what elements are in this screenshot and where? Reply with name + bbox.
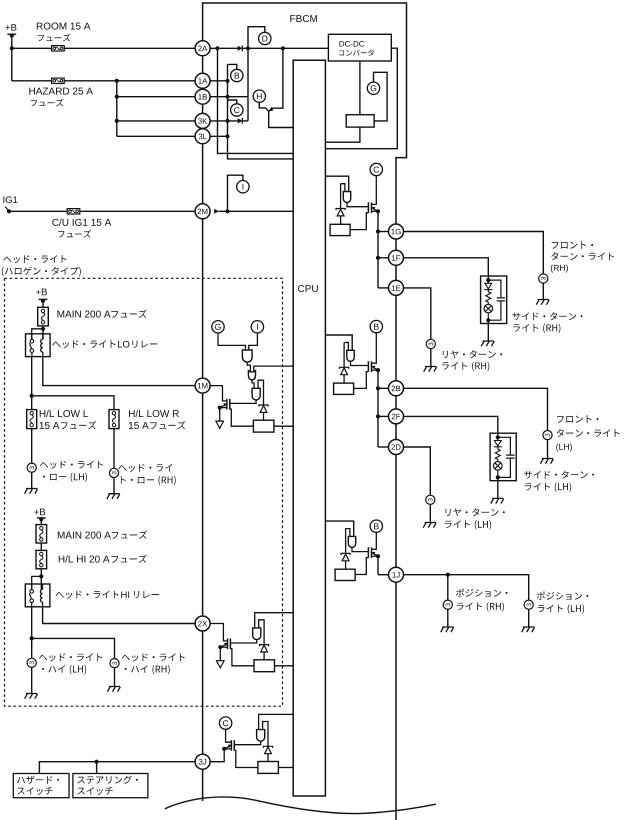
MOSFET source stub <box>372 210 379 212</box>
gate drive wire <box>352 548 368 552</box>
wire high branch to RH <box>32 638 115 658</box>
ground ref 3 (front RH) <box>539 274 548 283</box>
fuse C/U IG1 15A <box>67 209 80 214</box>
resistor <box>334 383 354 394</box>
cell right pin loop <box>263 722 268 747</box>
source junction <box>376 209 380 213</box>
MOSFET channel bar <box>371 361 373 372</box>
wire 3L row <box>210 135 228 137</box>
resistor <box>335 569 355 580</box>
unit entry/exit wires <box>497 433 499 438</box>
+B label (HI) <box>34 509 45 516</box>
junction 3L <box>225 134 229 138</box>
node B circle <box>231 69 243 81</box>
gate AND cell <box>347 350 354 361</box>
gate drive wire <box>235 741 261 744</box>
ground (rear turn LH) <box>423 523 436 528</box>
resistor <box>254 660 275 672</box>
gate drive wire <box>230 400 256 403</box>
wire 1B row <box>210 96 248 98</box>
zener diode <box>341 553 350 555</box>
wire C to drain (3J) <box>226 729 232 742</box>
output bus <box>377 370 379 447</box>
node G circle (LO) <box>212 321 224 333</box>
IG1 label <box>3 196 17 203</box>
wire contact down (LO) <box>31 356 33 409</box>
junction steering branch <box>95 760 99 764</box>
zener feedback drop <box>343 343 345 368</box>
resistor <box>258 762 279 774</box>
cell input from CPU <box>255 613 294 628</box>
ground (position RH) <box>441 627 454 632</box>
FBCM label <box>290 15 317 22</box>
wire rear RH to ground <box>430 349 432 367</box>
fuse ROOM 15A <box>52 46 65 51</box>
junction relay feed (HI) <box>39 574 43 578</box>
source junction <box>222 747 226 751</box>
supply node circle <box>370 320 382 332</box>
cell right pin loop <box>259 620 264 645</box>
ground ref 3 (rear RH) <box>426 339 435 348</box>
OR out to AND2 <box>252 380 254 388</box>
wire zener to resistor <box>345 561 347 569</box>
wire fuse to relay node <box>42 326 44 339</box>
wire to last pin <box>378 287 389 289</box>
ROOM label <box>37 23 91 30</box>
H/L LOW L label <box>40 410 88 417</box>
wire to pin <box>378 387 389 389</box>
DC-DC label line1 <box>339 41 364 47</box>
side turn RH label <box>512 312 582 320</box>
wire resistor to gate <box>230 409 254 426</box>
junction 1B <box>225 95 229 99</box>
MOSFET gate bar <box>229 639 231 650</box>
wire 2A branch to CPU <box>218 48 294 153</box>
gate AND cell <box>343 192 350 203</box>
pin 2F <box>389 409 404 424</box>
+B terminal (HI) <box>37 517 46 519</box>
ground (rear turn RH) <box>424 367 437 372</box>
diode D1 (2A row) <box>238 46 243 51</box>
fuse H/L LOW R <box>109 410 119 429</box>
wire 1J output <box>403 575 529 600</box>
pin 2A <box>195 41 210 56</box>
front turn LH label <box>557 415 598 422</box>
junction 3K branch <box>115 119 119 123</box>
unit lamp <box>494 462 503 471</box>
steering switch label <box>77 775 138 783</box>
pin 2B <box>389 381 404 396</box>
junction 3K <box>225 119 229 123</box>
wire front LH to ground <box>547 440 549 459</box>
ground ref 3 (front LH) <box>543 431 552 440</box>
gate AND cell <box>257 730 265 742</box>
source junction <box>218 645 222 649</box>
ground ref 3 (head low LH) <box>27 463 36 472</box>
zener diode <box>336 209 345 211</box>
unit entry/exit wires <box>487 276 489 281</box>
MOSFET gate bar <box>367 361 369 372</box>
wire +B to MAIN fuse <box>42 300 44 307</box>
MOSFET source arrow <box>221 644 227 647</box>
zener diode <box>263 746 272 748</box>
FBCM box outline <box>203 3 407 820</box>
wire front RH to ground <box>542 283 544 299</box>
C/U IG1 fuse label <box>58 230 91 238</box>
fuse H/L LOW L <box>27 410 37 429</box>
ground (head low LH) <box>25 489 38 494</box>
MOSFET channel bar <box>227 639 229 650</box>
transistor H supply wire <box>272 48 283 108</box>
junction H supply <box>281 46 285 50</box>
wire zener to resistor <box>267 754 269 762</box>
MOSFET drain stub <box>372 532 377 549</box>
MOSFET source stub <box>372 555 379 557</box>
wire to 1B <box>117 96 196 98</box>
gate AND cell <box>348 536 355 547</box>
wire coil to 1M <box>43 356 196 385</box>
MOSFET channel bar <box>226 399 228 410</box>
wire +B to MAIN fuse (HI) <box>40 519 42 525</box>
ground ref 3 (head high LH) <box>27 658 36 667</box>
output junction <box>376 386 380 390</box>
wire to last pin <box>378 574 389 576</box>
node I circle (LO) <box>251 321 263 333</box>
wire 3J to switches <box>39 762 195 774</box>
junction 1A <box>225 79 229 83</box>
wire zener to resistor <box>340 216 342 224</box>
wire between fuses <box>40 543 42 550</box>
junction high branch <box>30 636 34 640</box>
wire 3K diode out <box>242 120 248 122</box>
ground (side turn LH) <box>491 498 504 503</box>
output junction <box>376 414 380 418</box>
wire to 3K <box>117 120 196 122</box>
DC-DC label line2 <box>339 50 374 56</box>
H/L HI label <box>59 555 110 562</box>
ground arrow (HI) <box>219 647 221 661</box>
wire rear LH to ground <box>429 504 431 522</box>
headlight dashed box <box>5 278 283 706</box>
wire resistor to CPU <box>278 767 293 769</box>
unit capacitor plates <box>506 455 514 458</box>
relay headlight-LO <box>26 334 51 357</box>
MOSFET channel bar <box>371 547 373 558</box>
head high LH label <box>39 653 102 661</box>
side turn LH label <box>524 471 594 479</box>
cell right pin loop <box>258 380 263 405</box>
C/U IG1 label <box>52 219 111 226</box>
pin 1B <box>195 89 210 104</box>
supply node circle <box>370 520 382 532</box>
output bus <box>377 211 379 288</box>
junction I hook <box>225 209 229 213</box>
wire resistor to gate <box>350 213 368 230</box>
MAIN 200A label (LO) <box>58 311 111 318</box>
node D circle <box>259 32 271 44</box>
node C circle (3J) <box>219 717 231 729</box>
unit resistor <box>486 290 491 305</box>
ground (side turn RH) <box>481 341 494 346</box>
CPU label <box>298 285 318 292</box>
zener diode <box>340 367 349 369</box>
MOSFET source arrow <box>373 553 378 556</box>
pin 1F <box>389 250 404 265</box>
wire DC-DC out <box>325 48 397 149</box>
wire to pin <box>378 257 389 259</box>
unit top junction <box>496 435 500 439</box>
ground ref 3 (position LH) <box>524 600 533 609</box>
fuse MAIN 200A (HI) <box>36 525 47 543</box>
ground (head high RH) <box>107 687 120 692</box>
headlight section label <box>3 255 66 263</box>
wire coil to 2X <box>43 607 196 624</box>
zener feedback drop <box>345 529 347 554</box>
wire I to AND <box>249 333 258 350</box>
ground (head high LH) <box>25 694 38 699</box>
relay headlight-HI <box>25 584 50 607</box>
wire fuse to relay node (HI) <box>40 569 42 589</box>
MOSFET channel bar <box>371 203 373 214</box>
+B terminal (top) <box>7 33 16 35</box>
wire HAZARD row <box>12 80 196 82</box>
wire low RH to ground <box>113 478 115 494</box>
junction relay feed (LO) <box>41 327 45 331</box>
zener feedback drop <box>340 184 342 209</box>
+B label (LO) <box>36 289 47 296</box>
output junction <box>376 229 380 233</box>
wire LOW L to gref <box>31 429 33 464</box>
unit lamp <box>484 304 493 313</box>
rear turn LH label <box>445 508 504 516</box>
pin 3J <box>195 754 210 769</box>
pin 2X <box>195 616 210 631</box>
fuse H/L HI 20A <box>36 550 47 568</box>
front turn RH label <box>552 241 593 248</box>
hazard switch box <box>13 774 69 798</box>
source junction <box>376 554 380 558</box>
cell left pin <box>344 343 348 351</box>
wire to contact (LO) <box>32 329 43 340</box>
unit lamp-to-bottom wire <box>487 313 489 320</box>
wire to contact (HI) <box>32 576 42 589</box>
unit capacitor plates <box>497 298 505 301</box>
junction +B/ROOM <box>10 46 14 50</box>
junction low branch <box>30 394 34 398</box>
output bus <box>377 556 379 575</box>
cell left pin <box>341 184 345 192</box>
ROOM fuse label <box>38 34 71 42</box>
ground (front turn LH) <box>540 459 553 464</box>
cell input from CPU <box>259 714 294 729</box>
fuse HAZARD 25A <box>52 78 65 83</box>
head low RH label <box>118 464 172 472</box>
ground arrow (LO) <box>219 408 221 422</box>
MOSFET gate bar <box>233 740 235 751</box>
MAIN 200A label (HI) <box>58 532 111 539</box>
wire 2X pin to drain <box>210 624 227 641</box>
arrow 2M <box>214 209 219 214</box>
+B terminal (LO) <box>39 298 48 300</box>
H/L LOW R label <box>129 410 179 417</box>
hazard switch label <box>17 776 59 784</box>
node H circle <box>253 90 265 102</box>
wire position RH to ground <box>447 609 449 627</box>
resistor R1 (DC-DC) <box>346 115 374 127</box>
wire 2A to diode <box>210 47 238 49</box>
wire R1 to CPU <box>325 127 360 142</box>
MOSFET source stub <box>220 407 227 409</box>
wire 2M row internal <box>219 210 294 212</box>
wire 2D output <box>403 447 430 495</box>
wire zener to resistor <box>343 375 345 383</box>
wire low branch to R fuse <box>32 396 114 410</box>
node G circle <box>367 82 379 94</box>
CPU box <box>293 60 325 796</box>
gate drive wire <box>351 361 369 365</box>
unit bottom junction <box>496 475 500 479</box>
junction 2A branch <box>215 46 219 50</box>
wire +B down <box>11 35 13 81</box>
position RH label <box>456 589 508 597</box>
wire resistor to gate <box>355 558 368 575</box>
unit top junction <box>486 278 490 282</box>
wire 1E output <box>403 288 431 340</box>
wire 1G output <box>403 232 543 274</box>
wire unit LH to ground <box>497 481 499 499</box>
unit resistor <box>495 447 500 462</box>
wire diode-net vertical <box>247 48 249 121</box>
gate drive wire <box>347 203 368 207</box>
unit bottom junction <box>486 318 490 322</box>
node C hook <box>228 100 237 104</box>
wire 1M pin to drain <box>210 386 227 401</box>
AND out to OR <box>247 362 250 371</box>
source junction <box>376 368 380 372</box>
HAZARD label <box>29 88 93 95</box>
wire resistor to CPU <box>274 425 293 427</box>
wire low LH to ground <box>31 472 33 488</box>
headlight LO relay label <box>52 340 115 348</box>
driver gate wire from CPU <box>325 335 352 350</box>
IG1 terminal <box>7 209 11 213</box>
AND gate (G,I) <box>242 350 252 362</box>
wire 2F output <box>403 416 498 433</box>
wire to last pin <box>378 446 389 448</box>
wire zener to resistor <box>263 412 265 420</box>
MOSFET drain stub <box>372 176 377 205</box>
rear turn RH label <box>443 350 502 358</box>
MOSFET source stub <box>220 646 227 648</box>
wire G to AND <box>218 333 245 350</box>
wire LOW R to gref <box>113 429 115 469</box>
junction position RH <box>446 573 450 577</box>
position LH label <box>537 592 589 600</box>
transistor Q1 (H) <box>259 102 268 111</box>
unit zener <box>494 441 501 447</box>
MOSFET gate bar <box>229 399 231 410</box>
gate AND cell <box>253 628 261 640</box>
wire 2B output <box>403 388 547 430</box>
MOSFET drain stub <box>372 333 377 363</box>
unit zener <box>485 283 492 289</box>
junction hazard branch <box>115 79 119 83</box>
pin 1E <box>389 280 404 295</box>
junction after diode <box>246 46 250 50</box>
gate AND cell <box>252 388 260 400</box>
MOSFET source arrow <box>373 367 378 370</box>
pin 2D <box>389 440 404 455</box>
wire 1A row <box>210 80 228 82</box>
resistor <box>330 224 350 235</box>
node I hook <box>228 175 243 211</box>
pin 2M <box>195 204 210 219</box>
wire high RH to ground <box>114 668 116 687</box>
OR right pin from CPU <box>254 366 293 372</box>
cell left pin <box>346 529 350 537</box>
head high RH label <box>122 653 185 661</box>
wire contact down (HI) <box>31 607 33 659</box>
wire to pin <box>378 231 389 233</box>
ground (position LH) <box>522 627 535 632</box>
HAZARD fuse label <box>31 99 64 107</box>
junction 1B branch <box>115 95 119 99</box>
diode D2 (3K row) <box>238 118 243 123</box>
wire position RH drop <box>447 575 449 600</box>
gate drive wire <box>231 640 257 643</box>
MOSFET source stub <box>224 748 231 750</box>
ground ref 3 (head high RH) <box>110 659 119 668</box>
wire DC-DC bottom <box>359 61 361 115</box>
ground (head low RH) <box>107 494 120 499</box>
wire 1F output <box>403 258 488 276</box>
DC-DC converter box <box>328 34 391 61</box>
wire zener to resistor <box>263 652 265 660</box>
MOSFET source stub <box>372 369 379 371</box>
zener diode <box>260 645 269 647</box>
wire resistor to CPU <box>275 665 294 667</box>
pin 1G <box>389 224 404 239</box>
pin 3L <box>195 129 210 144</box>
OR gate <box>248 371 255 380</box>
head low LH label <box>40 461 103 469</box>
wire hazard branch vertical <box>116 81 118 137</box>
wire H output to CPU <box>269 111 294 127</box>
node B hook <box>228 64 237 69</box>
wire diode out to DC-DC <box>242 47 328 49</box>
driver gate wire from CPU <box>325 176 348 191</box>
ground ref 3 (rear LH) <box>426 495 435 504</box>
MOSFET gate bar <box>367 547 369 558</box>
steering switch box <box>73 774 148 798</box>
wire IG1 row <box>9 210 195 212</box>
wire unit RH to ground <box>487 324 489 342</box>
ground ref 3 (position RH) <box>443 600 452 609</box>
MOSFET source arrow <box>221 404 227 407</box>
node G hook <box>374 72 388 121</box>
node D hook <box>248 27 265 49</box>
output junction <box>376 256 380 260</box>
node C circle <box>231 104 243 116</box>
+B label (top) <box>5 24 16 31</box>
wire resistor to gate <box>234 751 258 768</box>
ground (front turn RH) <box>536 300 549 305</box>
headlight HI relay label <box>56 591 119 599</box>
resistor <box>253 420 274 432</box>
pin 1A <box>195 73 210 88</box>
wire to pin <box>378 415 389 417</box>
MOSFET gate bar <box>367 202 369 213</box>
